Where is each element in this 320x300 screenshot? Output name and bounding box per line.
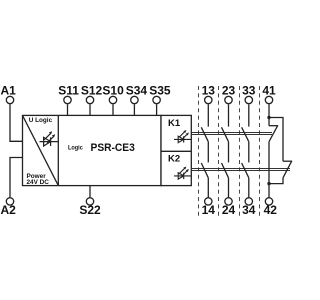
svg-text:K1: K1 — [168, 118, 181, 129]
svg-text:A2: A2 — [1, 203, 17, 217]
svg-text:41: 41 — [262, 84, 276, 98]
svg-text:S22: S22 — [79, 203, 101, 217]
svg-text:K2: K2 — [168, 154, 180, 165]
svg-text:S35: S35 — [149, 84, 171, 98]
svg-text:34: 34 — [242, 203, 256, 217]
svg-text:U Logic: U Logic — [29, 117, 53, 124]
svg-text:13: 13 — [202, 84, 216, 98]
svg-text:23: 23 — [222, 84, 236, 98]
svg-text:24V DC: 24V DC — [27, 179, 50, 186]
svg-text:33: 33 — [242, 84, 256, 98]
svg-text:42: 42 — [264, 203, 278, 217]
svg-text:A1: A1 — [1, 84, 17, 98]
svg-text:S34: S34 — [126, 84, 148, 98]
svg-text:S10: S10 — [102, 84, 124, 98]
svg-text:24: 24 — [222, 203, 236, 217]
svg-text:14: 14 — [202, 203, 216, 217]
svg-text:S11: S11 — [58, 84, 79, 98]
svg-text:Logic: Logic — [68, 145, 83, 152]
svg-text:PSR-CE3: PSR-CE3 — [91, 142, 135, 154]
svg-text:S12: S12 — [81, 84, 103, 98]
